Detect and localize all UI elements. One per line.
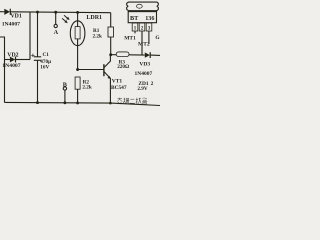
capacitor C1 bbox=[31, 12, 41, 103]
wire pin2 to gate line bbox=[141, 31, 143, 55]
wire bottom rail bbox=[5, 102, 161, 105]
diode VD3 bbox=[145, 52, 160, 58]
wire top rail bbox=[0, 11, 4, 13]
diode VD2 bbox=[5, 57, 31, 63]
wire pin1 stub MT1 bbox=[134, 31, 136, 33]
node on top rail at C1 bbox=[36, 11, 39, 14]
node collector/R1/R3 bbox=[109, 53, 112, 56]
wire top rail continued bbox=[10, 11, 110, 14]
node A terminal bbox=[54, 12, 57, 27]
resistor R1 bbox=[108, 13, 114, 55]
wire left feeder bbox=[0, 37, 5, 103]
photoresistor LDR1 bbox=[70, 12, 85, 69]
node LDR/R2/base junction bbox=[76, 68, 79, 71]
node bottom R2 bbox=[76, 101, 79, 104]
light arrows bbox=[62, 15, 70, 23]
node bottom emitter bbox=[109, 102, 112, 105]
zener note chinese text bbox=[117, 98, 147, 105]
diode VD1 bbox=[4, 9, 10, 15]
triac BT136 package bbox=[127, 2, 159, 31]
node B terminal bbox=[63, 87, 66, 103]
node bottom C1 bbox=[36, 101, 39, 104]
resistor R3 bbox=[111, 52, 145, 57]
wire riser from VD2 to top rail bbox=[29, 12, 31, 60]
wire pin3 stub G bbox=[148, 31, 150, 44]
transistor VT1 bbox=[78, 55, 111, 103]
resistor R2 bbox=[75, 77, 80, 103]
